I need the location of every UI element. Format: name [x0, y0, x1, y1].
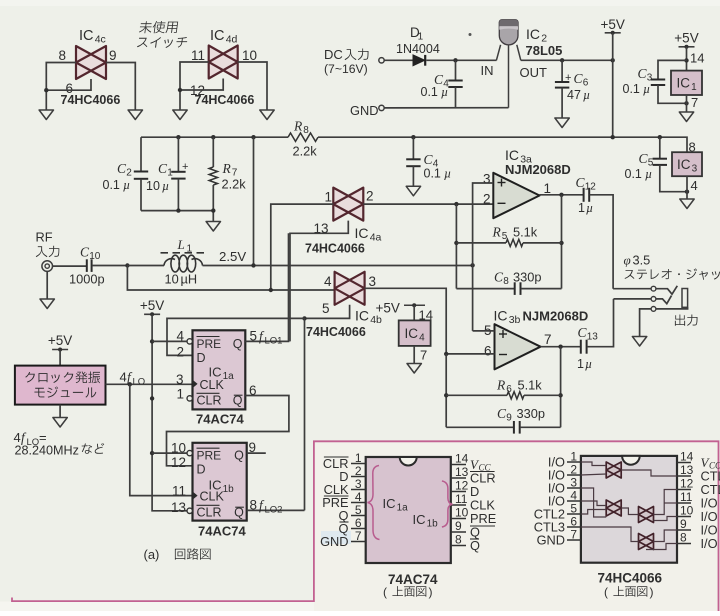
label 未使用スイッチ (unused switches)	[137, 21, 190, 48]
svg-text:13: 13	[455, 465, 469, 479]
wire clock output 4fLO	[106, 383, 193, 385]
svg-text:OUT: OUT	[520, 65, 548, 80]
label 8 fLO2	[250, 498, 283, 516]
svg-text:4: 4	[570, 489, 577, 503]
wire IC4a pin2 to IC3a inverting input	[363, 203, 493, 205]
svg-text:IC: IC	[405, 326, 419, 341]
svg-text:2: 2	[126, 168, 132, 179]
svg-text:10: 10	[146, 179, 160, 193]
svg-text:74AC74: 74AC74	[198, 524, 246, 539]
wire IC4d pin10 to ground branch	[238, 62, 267, 110]
svg-text:µ: µ	[583, 88, 590, 102]
svg-text:µ: µ	[444, 167, 451, 181]
wire fLO2 net to IC1a D and IC1b Qbar	[167, 318, 305, 355]
svg-text:74HC4066: 74HC4066	[598, 571, 663, 586]
svg-text:1a: 1a	[397, 503, 409, 514]
label 5 fLO1	[250, 329, 283, 347]
internal switch SW2 74HC4066 top view	[606, 500, 621, 516]
ground under IC4d right	[260, 110, 274, 120]
svg-text:µ: µ	[586, 201, 593, 215]
svg-text:1b: 1b	[223, 484, 235, 495]
terminal DC input	[379, 58, 384, 63]
svg-text:7: 7	[355, 529, 362, 543]
svg-text:4d: 4d	[226, 34, 238, 46]
svg-text:5: 5	[322, 301, 330, 316]
svg-text:LO: LO	[133, 377, 146, 388]
IC3 box	[672, 152, 702, 176]
svg-text:8: 8	[455, 533, 462, 547]
svg-text:10: 10	[455, 506, 469, 520]
svg-text:10: 10	[89, 251, 101, 262]
svg-text:µ: µ	[643, 82, 650, 96]
ground under C6	[555, 118, 569, 128]
wire IC1a PRE pin4	[152, 340, 187, 342]
svg-text:R: R	[293, 119, 303, 134]
svg-text:74HC4066: 74HC4066	[61, 93, 121, 107]
svg-text:78L05: 78L05	[526, 43, 563, 58]
svg-text:8: 8	[503, 276, 509, 287]
svg-text:µH: µH	[181, 272, 198, 287]
svg-text:9: 9	[249, 440, 257, 455]
svg-text:14: 14	[455, 452, 469, 466]
svg-text:11: 11	[455, 492, 468, 506]
wire C12 to jack tip	[590, 195, 614, 289]
svg-text:9: 9	[506, 413, 512, 424]
IC package 74HC4066 top view body	[581, 456, 677, 563]
IC1 box	[671, 71, 702, 95]
svg-text:5.1k: 5.1k	[513, 225, 538, 240]
svg-text:10: 10	[171, 440, 186, 455]
wire IC3b noninverting input from 2.5V drop	[473, 330, 495, 332]
svg-text:µ: µ	[441, 85, 448, 99]
wire decoupling bottom rail	[141, 210, 213, 212]
terminal RF input connector	[36, 230, 60, 272]
wire IC4a pin1 to RF line	[271, 204, 334, 290]
svg-text:CLK: CLK	[200, 490, 225, 504]
svg-text:6: 6	[506, 384, 512, 395]
svg-text:0.1: 0.1	[103, 178, 120, 192]
svg-text:4: 4	[419, 333, 425, 344]
svg-text:LO1: LO1	[265, 336, 283, 347]
wire IC4b pin5 control from fLO2	[305, 305, 350, 319]
wire IC4d pin12 control to ground net	[180, 79, 223, 91]
svg-text:4c: 4c	[95, 34, 106, 46]
svg-text:7: 7	[420, 348, 427, 363]
svg-text:R: R	[222, 161, 232, 176]
svg-text:9: 9	[680, 517, 687, 531]
svg-text:NJM2068D: NJM2068D	[523, 309, 589, 324]
svg-text:14: 14	[680, 450, 694, 464]
svg-text:10: 10	[165, 272, 179, 287]
flip-flop IC1a 74AC74	[193, 330, 246, 409]
svg-text:330p: 330p	[517, 406, 545, 421]
svg-text:5: 5	[502, 231, 508, 242]
capacitor C8 330p feedback	[456, 270, 561, 295]
ground under IC4c left	[39, 110, 53, 120]
svg-text:5: 5	[570, 502, 577, 516]
flip-flop IC1b 74AC74	[193, 443, 247, 521]
svg-text:12: 12	[171, 455, 186, 470]
svg-text:NJM2068D: NJM2068D	[505, 162, 571, 177]
svg-text:14: 14	[690, 51, 704, 66]
svg-text:8: 8	[680, 531, 687, 545]
wire C10 to RF junction	[92, 265, 127, 267]
wire IC4c pin6 control to ground net	[46, 79, 91, 90]
svg-text:11: 11	[172, 483, 186, 498]
wire C13 to jack ring	[587, 299, 614, 347]
IC package 74AC74 top view body	[366, 457, 451, 563]
svg-text:74HC4066: 74HC4066	[305, 242, 365, 256]
svg-text:Q: Q	[233, 337, 243, 351]
ground under bus C4	[406, 186, 420, 196]
svg-text:Q: Q	[470, 538, 480, 553]
svg-text:(: (	[604, 585, 608, 599]
svg-text:GND: GND	[537, 533, 565, 548]
wire RF connector to ground	[46, 271, 48, 299]
scan speck	[469, 33, 472, 36]
svg-text:9: 9	[109, 48, 117, 63]
wire IC4c pin9 to ground branch	[106, 63, 135, 111]
analog switch IC4a	[313, 188, 381, 244]
pins right side 74AC74 top view	[451, 452, 497, 554]
capacitor C13 1u	[577, 325, 598, 371]
svg-text:2: 2	[570, 463, 577, 477]
svg-text:8: 8	[303, 125, 309, 136]
svg-text:µ: µ	[123, 178, 130, 192]
ground under RF input	[40, 299, 54, 309]
label (上面図) left	[383, 585, 433, 599]
wire D1 cathode to regulator IN	[426, 59, 496, 61]
resistor R5 5.1k feedback	[456, 225, 561, 247]
svg-text:1: 1	[570, 450, 577, 464]
svg-text:D: D	[197, 351, 206, 365]
svg-text:11: 11	[680, 490, 693, 504]
svg-text:28.240MHz: 28.240MHz	[15, 443, 79, 457]
label DC入力 (7-16V)	[324, 47, 369, 76]
resistor R7 2.2k	[209, 137, 246, 221]
svg-text:1: 1	[167, 168, 173, 179]
svg-text:4a: 4a	[370, 232, 382, 244]
clock oscillator module box	[15, 366, 106, 405]
wire +5V rail down PRE/CLR	[152, 314, 187, 511]
svg-text:L: L	[177, 237, 185, 252]
svg-text:0.1: 0.1	[424, 167, 441, 181]
wire GND rail to regulator middle leg	[384, 107, 508, 109]
svg-text:PRE: PRE	[197, 449, 222, 463]
wire +5V bus (2.5V side)	[141, 136, 288, 138]
pins right side 74HC4066 top view	[677, 450, 720, 552]
wire IC3a output to C12	[540, 194, 584, 196]
internal switch SW3 74HC4066 top view	[639, 507, 654, 523]
svg-text:2.5V: 2.5V	[219, 249, 246, 264]
svg-text:+5V: +5V	[674, 31, 698, 46]
svg-text:(7~16V): (7~16V)	[324, 62, 368, 76]
capacitor C10 1000p	[69, 245, 105, 287]
svg-text:(a): (a)	[144, 547, 160, 562]
svg-text:4: 4	[120, 370, 127, 385]
svg-text:10: 10	[680, 504, 694, 518]
svg-text:6: 6	[484, 344, 492, 359]
svg-text:1: 1	[324, 190, 332, 205]
svg-text:GND: GND	[350, 103, 378, 118]
svg-text:12: 12	[680, 477, 694, 491]
wire IC1 pin7 to ground	[686, 95, 688, 112]
svg-text:IC: IC	[355, 308, 369, 324]
svg-text:IC: IC	[210, 28, 225, 44]
svg-text:13: 13	[171, 500, 186, 515]
wire +5V to module	[59, 350, 61, 366]
svg-text:2: 2	[355, 464, 362, 478]
svg-text:4: 4	[324, 274, 332, 289]
svg-text:1: 1	[418, 32, 424, 43]
svg-text:1b: 1b	[427, 519, 439, 530]
svg-text:7: 7	[691, 95, 698, 110]
svg-text:5: 5	[355, 503, 362, 517]
svg-text:IC: IC	[383, 496, 396, 511]
wire IC3b output to C13	[541, 346, 581, 348]
svg-text:74HC4066: 74HC4066	[195, 93, 255, 107]
svg-text:74HC4066: 74HC4066	[306, 325, 366, 339]
ground under IC1	[679, 112, 693, 122]
svg-text:2.2k: 2.2k	[293, 144, 318, 159]
svg-text:8: 8	[58, 48, 66, 63]
wire IC4 pin7 to ground	[413, 346, 415, 364]
svg-text:DC: DC	[324, 47, 343, 62]
diode D1 1N4004	[396, 25, 440, 66]
caption (a) 回路図	[144, 547, 211, 562]
svg-text:): )	[429, 585, 433, 599]
svg-text:+5V: +5V	[376, 301, 400, 316]
svg-text:1: 1	[355, 451, 362, 465]
analog switch IC4b	[322, 272, 382, 326]
svg-text:3: 3	[369, 274, 377, 289]
svg-text:IC: IC	[677, 76, 691, 91]
svg-text:1: 1	[577, 357, 584, 371]
wire regulator OUT to +5V node	[521, 59, 613, 61]
wire IC3 pin4 to ground	[686, 176, 688, 199]
op-amp IC3b NJM2068D	[484, 308, 588, 370]
svg-text:µ: µ	[585, 357, 592, 371]
inverter bubble IC1a CLR	[187, 396, 192, 401]
label 4fLO = 28.240MHz	[14, 430, 105, 457]
svg-text:47: 47	[567, 88, 581, 102]
svg-text:IN: IN	[481, 63, 494, 78]
svg-text:3: 3	[355, 477, 362, 491]
jack ring contact	[614, 296, 672, 304]
ground under IC4c right	[128, 110, 142, 120]
inverter bubble IC1a PRE	[187, 339, 192, 344]
internal wiring 74HC4066 top view	[581, 462, 677, 550]
svg-text:IC: IC	[505, 147, 519, 163]
jack sleeve and body	[640, 289, 688, 337]
svg-text:5: 5	[250, 329, 258, 344]
ground under jack sleeve	[632, 337, 646, 347]
svg-text:RF: RF	[36, 230, 53, 245]
svg-text:Q: Q	[234, 449, 244, 463]
svg-text:6: 6	[570, 515, 577, 529]
svg-text:+5V: +5V	[140, 298, 164, 313]
ground under IC4d left	[173, 110, 187, 120]
svg-text:3.5: 3.5	[633, 253, 651, 268]
svg-text:0.1: 0.1	[421, 85, 438, 99]
svg-text:5.1k: 5.1k	[518, 378, 543, 393]
wire IC4b pin3 to IC3b inverting input	[365, 288, 447, 354]
wire +5V down to bus	[612, 33, 614, 137]
capacitor C2 0.1u	[103, 137, 149, 210]
wire IC1a Q pin5 fLO1	[245, 233, 288, 341]
svg-text:6: 6	[249, 383, 257, 398]
wire IC3b inverting input	[446, 353, 494, 355]
svg-text:IC: IC	[526, 26, 540, 42]
svg-text:11: 11	[191, 48, 205, 63]
label phi3.5 stereo jack	[624, 253, 720, 280]
wire RF to C10	[53, 265, 87, 267]
wire 2.5V line L1 to opamp bias	[203, 265, 473, 267]
wire IC4a pin13 control from fLO1	[290, 221, 348, 342]
label (上面図) right	[604, 585, 654, 599]
jack tip contact	[613, 286, 677, 294]
svg-text:+: +	[565, 72, 571, 84]
wire IC3a feedback right branch	[561, 195, 563, 289]
analog switch IC4c (74HC4066, unused)	[58, 28, 116, 96]
wire IC4c pin8 to ground branch	[46, 63, 76, 111]
wire IC3a feedback left branch	[455, 204, 457, 289]
svg-text:3: 3	[176, 372, 184, 387]
svg-text:1: 1	[544, 181, 552, 196]
highlight blue tint behind GND	[321, 531, 351, 544]
svg-text:2.2k: 2.2k	[222, 177, 247, 192]
svg-text:1: 1	[691, 82, 697, 93]
IC4 box	[399, 320, 431, 346]
svg-text:D: D	[197, 463, 206, 477]
svg-text:1: 1	[578, 201, 585, 215]
svg-text:CLK: CLK	[200, 378, 225, 392]
svg-text:4: 4	[355, 490, 362, 504]
resistor R6 5.1k feedback	[446, 378, 560, 399]
pins left side 74AC74 top view	[320, 451, 366, 549]
brace IC1b group	[413, 481, 453, 530]
svg-text:µ: µ	[162, 179, 169, 193]
svg-text:0.1: 0.1	[625, 167, 642, 181]
svg-text:12: 12	[455, 479, 469, 493]
svg-text:7: 7	[570, 528, 577, 542]
pink frame around top-view diagrams	[12, 441, 719, 611]
capacitor C1 10u electrolytic	[146, 137, 188, 210]
internal switch SW1 74HC4066 top view	[606, 462, 621, 478]
wire IC1b Q pin9 stub	[247, 452, 266, 454]
wire +5V to IC1 pin14	[686, 47, 688, 71]
internal switch SW4 74HC4066 top view	[639, 534, 654, 550]
svg-text:13: 13	[680, 463, 694, 477]
svg-text:8: 8	[250, 498, 258, 513]
wire IC3a noninverting input to 2.5V	[473, 183, 494, 331]
regulator IC2 78L05 package	[481, 20, 563, 108]
capacitor C3 0.1u bypass loop	[623, 60, 689, 105]
svg-text:2: 2	[483, 192, 491, 207]
resistor R8 2.2k	[288, 119, 318, 159]
svg-text:6: 6	[355, 516, 362, 530]
svg-text:IC: IC	[79, 28, 94, 44]
svg-text:LO2: LO2	[265, 505, 283, 516]
inductor L1 10uH	[127, 237, 204, 287]
wire IC3b feedback left branch	[445, 354, 447, 427]
wire module to ground	[59, 405, 61, 418]
svg-text:CLR: CLR	[197, 393, 222, 407]
wire DC input to diode D1	[384, 59, 413, 61]
svg-text:10: 10	[242, 48, 257, 63]
svg-text:IC: IC	[677, 157, 691, 172]
capacitor C12 1u	[576, 175, 597, 215]
capacitor C9 330p feedback	[446, 406, 560, 434]
svg-text:3: 3	[692, 163, 698, 174]
svg-text:1N4004: 1N4004	[396, 42, 440, 56]
svg-text:1a: 1a	[223, 371, 235, 382]
svg-text:PRE: PRE	[197, 337, 222, 351]
ground under IC3	[680, 199, 694, 209]
wire IC4d pin11 to ground branch	[180, 62, 209, 110]
svg-text:µ: µ	[645, 167, 652, 181]
svg-text:I/O: I/O	[701, 536, 718, 551]
svg-text:74AC74: 74AC74	[196, 412, 244, 427]
svg-text:330p: 330p	[513, 270, 541, 285]
wire IC1b PRE pin10	[152, 452, 187, 454]
svg-text:1: 1	[187, 244, 193, 255]
wire clock to IC1b CLK	[130, 384, 193, 495]
svg-text:4b: 4b	[370, 314, 382, 326]
svg-text:6: 6	[583, 78, 589, 89]
wire +5V to IC4 pin14	[413, 305, 415, 320]
ground under IC4	[407, 364, 421, 374]
capacitor C5 0.1u bypass loop	[625, 137, 690, 194]
capacitor C6 47u	[555, 60, 590, 118]
svg-text:+5V: +5V	[48, 333, 72, 348]
svg-text:3: 3	[570, 476, 577, 490]
svg-text:2: 2	[176, 345, 184, 360]
svg-text:IC: IC	[494, 308, 508, 324]
power symbol +5V for IC4	[376, 301, 426, 316]
svg-text:0.1: 0.1	[623, 82, 640, 96]
svg-text:GND: GND	[320, 534, 348, 549]
svg-text:13: 13	[587, 332, 599, 343]
svg-text:+5V: +5V	[600, 17, 624, 32]
svg-text:R: R	[492, 225, 502, 240]
svg-text:): )	[650, 585, 654, 599]
label 4fLO output	[120, 370, 146, 388]
svg-text:1000p: 1000p	[69, 272, 105, 287]
svg-text:12: 12	[585, 182, 597, 193]
inverter bubble IC1b PRE	[187, 450, 192, 455]
svg-text:φ: φ	[624, 253, 631, 268]
svg-text:2: 2	[366, 189, 374, 204]
svg-text:+: +	[182, 161, 188, 173]
svg-text:7: 7	[544, 332, 552, 347]
capacitor C4 bus bypass 0.1u	[406, 137, 451, 186]
ground under R7	[206, 222, 220, 232]
svg-text:IC: IC	[355, 225, 369, 241]
label 出力 output	[675, 315, 698, 326]
svg-text:4: 4	[691, 178, 698, 193]
terminal GND input	[350, 103, 384, 118]
wire IC3b feedback right branch	[560, 347, 562, 428]
svg-text:CLR: CLR	[197, 505, 222, 519]
svg-text:4: 4	[176, 329, 184, 344]
svg-text:3b: 3b	[509, 314, 521, 326]
pins left side 74HC4066 top view	[534, 450, 581, 548]
wire RF node down and right to IC4b pin4	[127, 266, 334, 291]
svg-text:3: 3	[483, 172, 491, 187]
wire IC1b Qbar pin8 fLO2	[247, 509, 305, 511]
wire 2.5V node bus drop	[253, 137, 255, 265]
